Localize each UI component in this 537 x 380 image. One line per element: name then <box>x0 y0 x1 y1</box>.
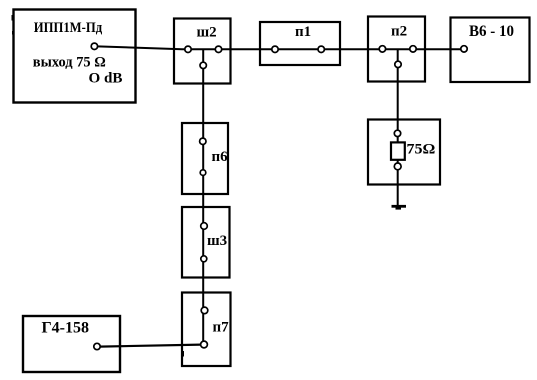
contact п2 left <box>379 46 385 52</box>
label 0 dB <box>89 71 123 87</box>
connector п6 <box>182 123 228 194</box>
instrument Г4-158 (generator) <box>23 316 120 372</box>
label выход 75 Ω <box>33 55 106 71</box>
svg-text:ш3: ш3 <box>207 233 227 249</box>
svg-text:75Ω: 75Ω <box>407 141 436 157</box>
svg-text:О dB: О dB <box>89 71 123 87</box>
instrument В6-10 (voltmeter) <box>451 18 530 83</box>
svg-text:п6: п6 <box>212 149 229 165</box>
wire from Г4-158 output to п7 lower contact <box>100 345 202 347</box>
wire vertical from п2 junction down through 75Ω load to ground <box>397 49 399 207</box>
contact 75Ω bottom <box>394 163 401 170</box>
contact п6 bottom <box>200 170 206 176</box>
scan artifact marks <box>12 15 185 357</box>
contact п7 top <box>201 307 208 314</box>
contact п6 top <box>200 138 206 144</box>
contact п1 right <box>318 46 324 52</box>
connector п2 <box>368 17 425 82</box>
label 75Ω <box>407 141 436 157</box>
contact ш2 right <box>215 46 221 52</box>
terminal ИПП1М-Пд output <box>91 43 97 49</box>
contact п1 left <box>272 46 278 52</box>
contact ш3 bottom <box>201 256 207 262</box>
svg-text:В6 - 10: В6 - 10 <box>469 23 514 40</box>
connector ш2 <box>174 19 231 84</box>
svg-text:ш2: ш2 <box>197 25 217 41</box>
svg-text:п2: п2 <box>391 24 407 40</box>
load block 75Ω <box>368 120 440 185</box>
contact п7 bottom <box>201 341 208 348</box>
connector п7 <box>182 293 231 367</box>
svg-text:п1: п1 <box>295 24 311 40</box>
contact ш3 top <box>201 223 208 230</box>
wire vertical from ш2 junction down through п6, ш3 to п7 <box>202 49 204 344</box>
connector п1 <box>260 22 340 65</box>
contact п2 bottom <box>395 61 401 67</box>
contact 75Ω top <box>394 130 400 136</box>
contact ш2 left <box>185 46 191 52</box>
svg-text:Г4-158: Г4-158 <box>42 320 90 337</box>
ground <box>392 206 407 209</box>
instrument ИПП1М-Пд (signal source) <box>14 10 136 103</box>
contact п2 right <box>410 46 416 52</box>
svg-text:выход 75 Ω: выход 75 Ω <box>33 55 106 71</box>
svg-text:ИПП1М-Пд: ИПП1М-Пд <box>34 20 103 36</box>
contact ш2 bottom <box>200 62 206 68</box>
terminal Г4-158 output <box>94 343 100 349</box>
wire main bus from ИПП1М-Пд output to В6-10 input <box>98 46 462 49</box>
resistor 75Ω <box>391 142 405 159</box>
terminal В6-10 input <box>461 46 467 52</box>
svg-text:п7: п7 <box>213 319 230 335</box>
connector ш3 <box>182 207 230 278</box>
